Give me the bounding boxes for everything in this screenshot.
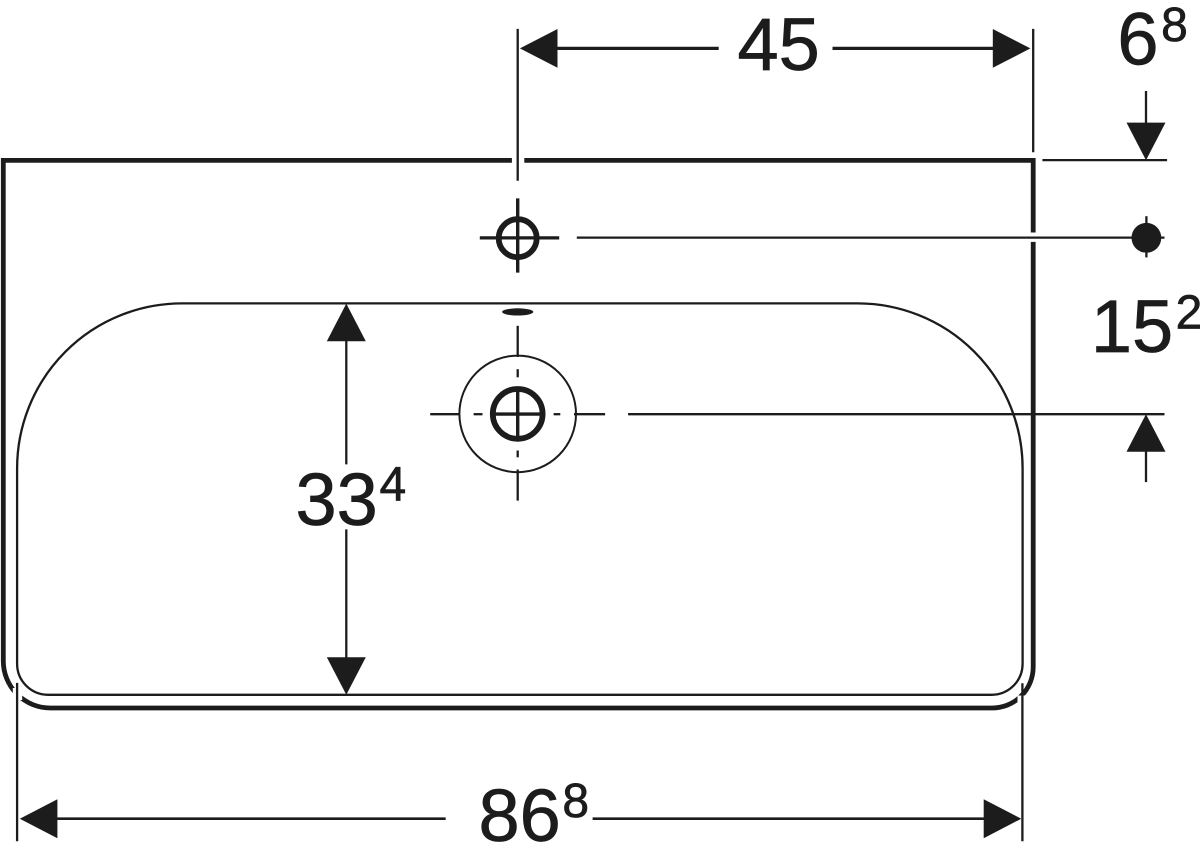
drain outer circle [459, 356, 576, 473]
dimension 33.4: dimension line [345, 340, 347, 658]
svg-text:33: 33 [296, 458, 378, 541]
drain cross [491, 412, 545, 415]
washbasin outer outline [3, 160, 1033, 708]
dimension 45: dimension line [557, 47, 994, 50]
dimension 86.8: extension line left [16, 683, 18, 841]
gap in bottom-left corner at extension line [13, 688, 22, 700]
dimension 15.2: arrow stem [1145, 451, 1147, 482]
dimension 86.8: extension line right [1021, 683, 1023, 841]
tap hole [499, 219, 537, 257]
dimension 33.4: up arrow [327, 304, 366, 342]
gap in top edge at centerline [512, 155, 524, 166]
dimension 45: left arrow [520, 29, 558, 68]
tap hole vertical tick [516, 198, 519, 272]
svg-text:8: 8 [562, 775, 589, 828]
dimension 86.8: left arrow [20, 799, 58, 838]
dimension 45: extension line right [1032, 29, 1034, 152]
svg-text:15: 15 [1091, 285, 1173, 368]
svg-text:6: 6 [1117, 0, 1158, 81]
svg-text:8: 8 [1161, 0, 1188, 52]
dimension 45: right arrow [993, 29, 1031, 68]
vertical centerline x=517.7 [517, 29, 519, 501]
dimension 15.2: up arrow [1127, 414, 1166, 452]
dimension 86.8: right arrow [984, 799, 1022, 838]
svg-text:4: 4 [379, 458, 406, 511]
svg-text:86: 86 [479, 774, 561, 848]
drain centerline horizontal y=414.2 [430, 413, 1164, 415]
dimension 6.8: extension line [1042, 159, 1167, 161]
basin inner rim [17, 303, 1023, 694]
tap hole centerline horizontal y=237.6 [480, 236, 559, 239]
overflow slot [502, 308, 533, 315]
dimension 6.8: down arrow [1127, 123, 1166, 161]
dimension 6.8: dot tick [1145, 216, 1147, 257]
svg-text:45: 45 [738, 3, 820, 86]
gap in right edge at tap centerline [1028, 233, 1040, 242]
dimension 86.8: dimension line [56, 817, 984, 820]
dimension 6.8: dot [1132, 223, 1162, 253]
svg-text:2: 2 [1176, 287, 1200, 340]
gap in bottom-right corner at extension line [1018, 696, 1028, 707]
dimension 6.8: arrow stem [1145, 91, 1147, 124]
dimension 33.4: down arrow [327, 657, 366, 695]
drain inner circle [493, 389, 543, 439]
